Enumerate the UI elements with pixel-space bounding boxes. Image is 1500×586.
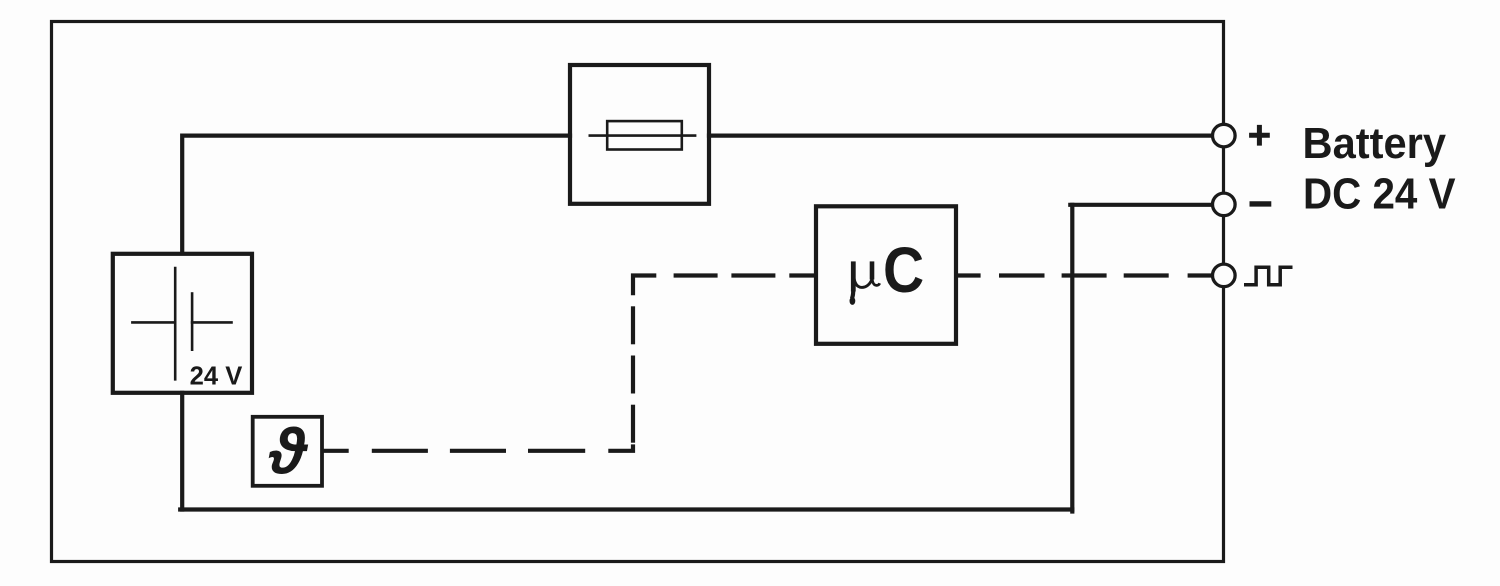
fuse element through-line xyxy=(590,134,695,137)
label minus terminal marker xyxy=(1250,201,1272,206)
dashed wire corner at riser bottom xyxy=(608,444,633,450)
battery cell symbol: left lead xyxy=(132,321,175,324)
svg-text:24 V: 24 V xyxy=(190,362,243,390)
pulse waveform symbol xyxy=(1244,267,1293,285)
svg-text:Battery: Battery xyxy=(1303,120,1447,168)
label uC (microcontroller): mu glyph drawn as strokes xyxy=(852,261,880,298)
svg-text:C: C xyxy=(883,234,924,306)
battery cell symbol: long plate xyxy=(174,268,177,379)
wire: minus wire to - terminal xyxy=(1070,203,1211,207)
fuse box xyxy=(570,65,709,204)
terminal circle: + (Battery plus) xyxy=(1213,124,1236,147)
wire: bottom return (0V rail) xyxy=(180,507,1072,511)
battery cell symbol: short plate xyxy=(191,294,194,350)
dashed wire: riser corner to uC left pin xyxy=(674,273,817,277)
enclosure outline xyxy=(52,22,1224,562)
wire: right riser up to minus wire xyxy=(1070,205,1074,512)
battery box xyxy=(113,254,252,393)
svg-text:DC 24 V: DC 24 V xyxy=(1303,170,1456,218)
terminal circle: - (Battery minus) xyxy=(1213,193,1236,216)
label + (plus terminal marker) xyxy=(1249,125,1270,146)
dashed wire: uC right pin to pulse terminal xyxy=(955,273,1212,277)
fuse element rectangle xyxy=(607,121,682,149)
svg-text:ϑ: ϑ xyxy=(268,416,309,488)
battery cell symbol: right lead xyxy=(192,321,231,324)
dashed wire corner at riser top xyxy=(633,276,656,296)
microcontroller box xyxy=(816,206,956,343)
temperature sensor box xyxy=(253,417,322,486)
wire: battery bottom down xyxy=(180,393,184,510)
wire: fuse to + terminal xyxy=(709,134,1212,138)
terminal circle: pulse output xyxy=(1213,264,1236,287)
dashed wire: riser vertical xyxy=(633,276,656,443)
wire: battery top to fuse (node +24V) xyxy=(182,136,570,253)
dashed wire: sensor to riser corner (segment stubs drawn explicitly) xyxy=(323,444,634,450)
